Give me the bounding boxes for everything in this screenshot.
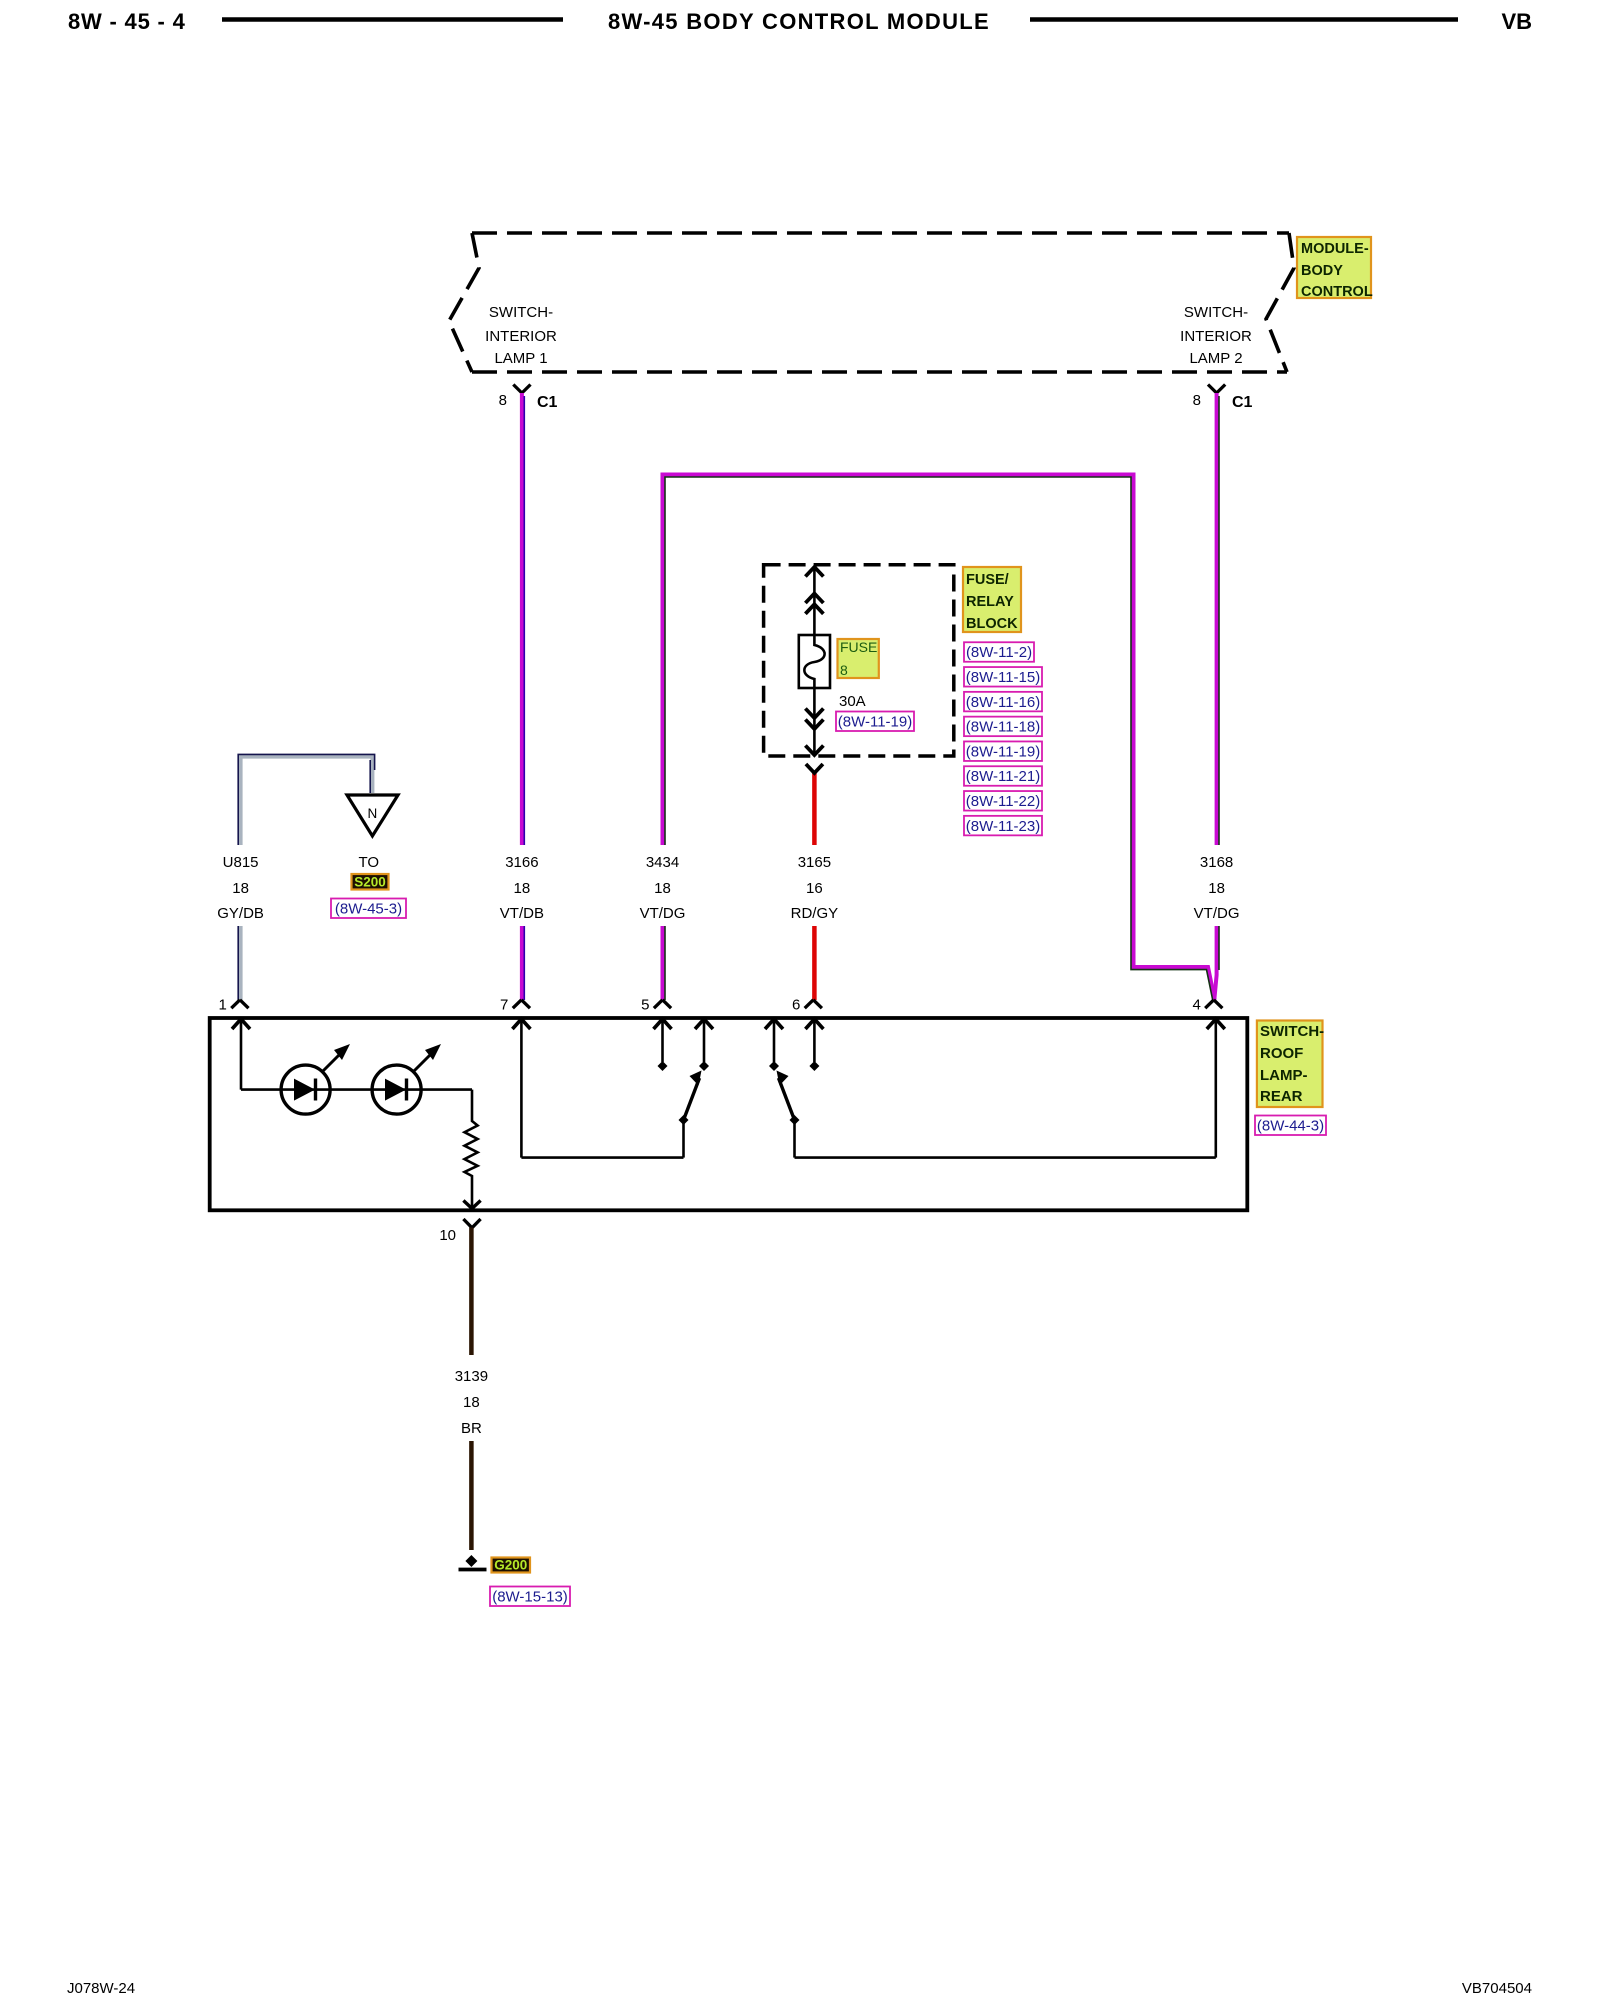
svg-text:18: 18 xyxy=(654,880,671,897)
svg-text:ROOF: ROOF xyxy=(1260,1045,1303,1062)
svg-text:INTERIOR: INTERIOR xyxy=(485,328,557,345)
svg-text:BLOCK: BLOCK xyxy=(966,616,1018,632)
svg-text:C1: C1 xyxy=(537,394,558,411)
svg-text:(8W-11-2): (8W-11-2) xyxy=(966,644,1032,661)
svg-text:(8W-11-18): (8W-11-18) xyxy=(966,719,1040,736)
svg-text:7: 7 xyxy=(500,997,508,1014)
svg-text:J078W-24: J078W-24 xyxy=(67,1980,135,1997)
svg-text:(8W-15-13): (8W-15-13) xyxy=(492,1589,568,1606)
svg-text:MODULE-: MODULE- xyxy=(1301,241,1369,257)
svg-text:(8W-11-22): (8W-11-22) xyxy=(966,793,1040,810)
svg-text:3139: 3139 xyxy=(455,1368,488,1385)
svg-text:TO: TO xyxy=(359,854,380,871)
svg-text:INTERIOR: INTERIOR xyxy=(1180,328,1252,345)
svg-text:VB: VB xyxy=(1501,9,1532,34)
svg-text:SWITCH-: SWITCH- xyxy=(1184,304,1248,321)
svg-text:VB704504: VB704504 xyxy=(1462,1980,1532,1997)
svg-text:(8W-11-21): (8W-11-21) xyxy=(966,768,1040,785)
svg-text:RD/GY: RD/GY xyxy=(791,905,839,922)
svg-text:SWITCH-: SWITCH- xyxy=(489,304,553,321)
svg-text:30A: 30A xyxy=(839,693,866,710)
svg-text:N: N xyxy=(368,806,378,821)
svg-text:5: 5 xyxy=(641,997,649,1014)
svg-text:18: 18 xyxy=(514,880,531,897)
svg-text:8: 8 xyxy=(499,392,507,409)
svg-text:(8W-11-15): (8W-11-15) xyxy=(966,669,1040,686)
svg-text:VT/DG: VT/DG xyxy=(1194,905,1240,922)
svg-text:3168: 3168 xyxy=(1200,854,1233,871)
svg-text:SWITCH-: SWITCH- xyxy=(1260,1023,1324,1040)
svg-text:BODY: BODY xyxy=(1301,263,1343,279)
svg-text:18: 18 xyxy=(1208,880,1225,897)
svg-text:10: 10 xyxy=(439,1227,456,1244)
svg-text:REAR: REAR xyxy=(1260,1088,1303,1105)
svg-text:8W-45 BODY CONTROL MODULE: 8W-45 BODY CONTROL MODULE xyxy=(608,9,990,34)
svg-text:LAMP 1: LAMP 1 xyxy=(494,350,547,367)
svg-text:FUSE/: FUSE/ xyxy=(966,572,1009,588)
svg-text:(8W-11-19): (8W-11-19) xyxy=(966,743,1040,760)
svg-text:18: 18 xyxy=(232,880,249,897)
svg-text:LAMP-: LAMP- xyxy=(1260,1067,1308,1084)
svg-text:6: 6 xyxy=(792,997,800,1014)
svg-text:8: 8 xyxy=(840,662,848,678)
svg-text:CONTROL: CONTROL xyxy=(1301,284,1373,300)
svg-text:1: 1 xyxy=(219,997,227,1014)
svg-text:G200: G200 xyxy=(494,1558,527,1573)
svg-text:LAMP 2: LAMP 2 xyxy=(1189,350,1242,367)
svg-text:RELAY: RELAY xyxy=(966,594,1014,610)
svg-text:(8W-11-23): (8W-11-23) xyxy=(966,818,1040,835)
svg-text:(8W-45-3): (8W-45-3) xyxy=(335,901,402,918)
svg-text:(8W-11-19): (8W-11-19) xyxy=(838,714,912,731)
svg-text:GY/DB: GY/DB xyxy=(217,905,264,922)
svg-text:8: 8 xyxy=(1193,392,1201,409)
svg-text:U815: U815 xyxy=(223,854,259,871)
svg-text:3165: 3165 xyxy=(798,854,831,871)
svg-text:S200: S200 xyxy=(354,875,386,890)
svg-text:8W - 45 - 4: 8W - 45 - 4 xyxy=(68,9,186,34)
svg-text:FUSE: FUSE xyxy=(840,639,877,655)
svg-text:C1: C1 xyxy=(1232,394,1253,411)
svg-text:3166: 3166 xyxy=(505,854,538,871)
svg-text:BR: BR xyxy=(461,1420,482,1437)
svg-text:(8W-11-16): (8W-11-16) xyxy=(966,694,1040,711)
svg-text:(8W-44-3): (8W-44-3) xyxy=(1257,1118,1324,1135)
svg-text:18: 18 xyxy=(463,1394,480,1411)
svg-text:3434: 3434 xyxy=(646,854,679,871)
svg-text:VT/DB: VT/DB xyxy=(500,905,544,922)
svg-text:4: 4 xyxy=(1192,997,1200,1014)
svg-text:16: 16 xyxy=(806,880,823,897)
svg-text:VT/DG: VT/DG xyxy=(640,905,686,922)
